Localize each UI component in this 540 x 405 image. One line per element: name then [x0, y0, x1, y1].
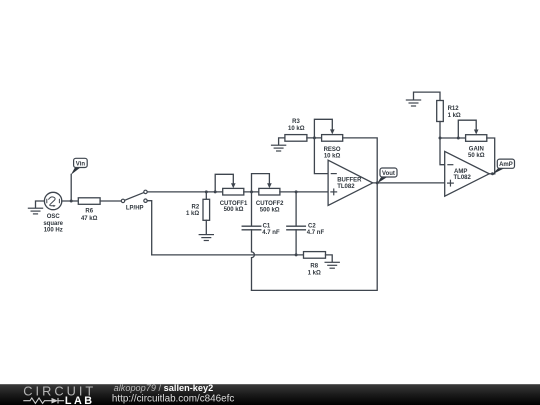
- wire: CUTOFF2 to op-amp non-inverting input: [280, 191, 328, 193]
- wire: R8 to ground: [326, 255, 333, 262]
- wire: feedback rail from output down to C1: [252, 183, 378, 291]
- capacitor C1: [242, 226, 261, 230]
- svg-text:RESO: RESO: [324, 147, 341, 153]
- wire: U1 inverting input stem: [314, 138, 328, 174]
- node AmP: [491, 172, 494, 175]
- svg-text:TL082: TL082: [337, 184, 355, 190]
- wire: R3 to RESO: [307, 137, 322, 139]
- wire: C1 bottom stem with hop over bottom rail: [252, 230, 255, 291]
- svg-text:OSC: OSC: [47, 214, 61, 220]
- footer bar: [0, 384, 540, 405]
- node Vin junction: [70, 200, 73, 203]
- wire: OSC negative terminal to ground: [36, 201, 45, 208]
- flag Vout: [377, 168, 397, 183]
- svg-text:500 kΩ: 500 kΩ: [224, 207, 244, 213]
- label C1 4.7 nF: [262, 224, 280, 236]
- wire: CUTOFF1 to CUTOFF2: [244, 191, 259, 193]
- wire: R2 top stem: [205, 192, 207, 199]
- wire: Vin flag stem: [70, 174, 72, 201]
- svg-text:GAIN: GAIN: [469, 147, 484, 153]
- wire: switch LP throw to CUTOFF1: [147, 191, 223, 193]
- node GAIN wiper junction: [457, 137, 460, 140]
- wire: bottom rail to R8: [152, 254, 304, 256]
- wire: ground to R12: [414, 92, 441, 100]
- svg-text:Vin: Vin: [76, 161, 86, 167]
- wire: RESO to output node (feedback): [343, 138, 378, 183]
- svg-text:100 Hz: 100 Hz: [44, 228, 63, 234]
- label R2 1 kOhm: [186, 205, 200, 217]
- node R12/GAIN junction: [439, 137, 442, 140]
- resistor R2: [203, 199, 210, 220]
- node R8 junction: [295, 253, 298, 256]
- ground (R12): [406, 100, 420, 106]
- svg-text:R2: R2: [192, 205, 200, 211]
- svg-text:square: square: [43, 221, 63, 227]
- voltage source OSC: [44, 192, 61, 209]
- node A (CUTOFF1 / CUTOFF2 / C1): [250, 190, 253, 193]
- svg-text:10 kΩ: 10 kΩ: [324, 153, 341, 159]
- wire: switch HP throw down to bottom rail: [147, 201, 152, 255]
- wire: OSC to R6: [62, 200, 79, 202]
- capacitor C2: [287, 226, 306, 230]
- wire: node to GAIN: [440, 137, 466, 139]
- wire: U2 output stub: [489, 173, 495, 175]
- op-amp U1 BUFFER TL082: [328, 160, 373, 205]
- svg-text:R3: R3: [292, 119, 300, 125]
- svg-text:CUTOFF2: CUTOFF2: [256, 201, 284, 207]
- svg-text:TL082: TL082: [454, 175, 472, 181]
- label RESO 10 kOhm: [324, 147, 341, 159]
- wire: GAIN to U2 output: [487, 138, 495, 174]
- svg-text:BUFFER: BUFFER: [337, 178, 362, 184]
- resistor R3: [285, 135, 307, 142]
- node CUTOFF1 wiper junction: [214, 190, 217, 193]
- wire: RESO wiper loop: [314, 119, 334, 138]
- svg-text:4.7 nF: 4.7 nF: [307, 230, 325, 236]
- svg-text:1 kΩ: 1 kΩ: [186, 211, 199, 217]
- svg-text:50 kΩ: 50 kΩ: [468, 153, 485, 159]
- wire: R3 to ground: [279, 138, 285, 145]
- label CUTOFF2 500 kOhm: [256, 201, 284, 213]
- wire: R12 to node: [439, 122, 441, 139]
- svg-text:alkopop79 / sallen-key2: alkopop79 / sallen-key2: [114, 383, 214, 393]
- svg-text:500 kΩ: 500 kΩ: [260, 208, 280, 214]
- svg-text:LP/HP: LP/HP: [126, 205, 144, 211]
- switch SW1 LP/HP: [121, 190, 147, 202]
- op-amp U2 AMP TL082: [445, 151, 490, 196]
- wire: CUTOFF1 wiper loop: [215, 174, 235, 192]
- footer logo CIRCUIT LAB: [23, 383, 96, 405]
- svg-text:LAB: LAB: [65, 395, 95, 405]
- wire: R6 to switch common: [100, 200, 121, 202]
- ground (OSC): [28, 208, 42, 214]
- ground (R3): [272, 145, 286, 151]
- label BUFFER TL082: [337, 178, 362, 191]
- potentiometer GAIN: [466, 135, 487, 142]
- label R12 1 kOhm: [448, 106, 461, 119]
- svg-text:1 kΩ: 1 kΩ: [308, 270, 321, 276]
- wire: C1 top stem: [251, 192, 253, 226]
- svg-text:47 kΩ: 47 kΩ: [81, 216, 98, 222]
- label R3 10 kOhm: [288, 119, 305, 132]
- ground (R2): [199, 235, 213, 241]
- flag Vin: [71, 158, 87, 175]
- svg-text:R8: R8: [310, 264, 318, 270]
- label C2 4.7 nF: [307, 224, 325, 236]
- label OSC square 100 Hz: [43, 214, 63, 233]
- svg-text:C2: C2: [308, 224, 316, 230]
- svg-text:C1: C1: [263, 224, 271, 230]
- resistor R8: [304, 252, 326, 259]
- svg-text:R12: R12: [448, 106, 460, 112]
- wire: R2 to ground: [205, 220, 207, 234]
- resistor R6: [78, 198, 100, 205]
- svg-text:AmP: AmP: [499, 162, 513, 168]
- svg-text:10 kΩ: 10 kΩ: [288, 126, 305, 132]
- ground (R8): [325, 262, 339, 268]
- wire: CUTOFF2 wiper loop: [252, 174, 272, 192]
- potentiometer CUTOFF1: [223, 188, 244, 195]
- svg-text:http://circuitlab.com/c846efc: http://circuitlab.com/c846efc: [112, 394, 234, 405]
- wire: C2 top stem: [295, 192, 297, 226]
- wire: C2 bottom stem: [295, 230, 297, 255]
- svg-text:1 kΩ: 1 kΩ: [448, 113, 461, 119]
- potentiometer CUTOFF2: [259, 188, 280, 195]
- flag AmP: [493, 159, 515, 174]
- resistor R12: [437, 101, 444, 122]
- wire: U1 output to U2 non-inverting input: [373, 182, 445, 184]
- potentiometer RESO: [322, 135, 343, 142]
- wire: GAIN wiper loop: [458, 120, 478, 138]
- label AMP TL082: [454, 169, 472, 181]
- svg-text:CUTOFF1: CUTOFF1: [220, 201, 248, 207]
- label R8 1 kOhm: [308, 264, 321, 277]
- label GAIN 50 kOhm: [468, 147, 485, 160]
- label R6 47 kOhm: [81, 209, 98, 222]
- node R3/RESO junction: [313, 136, 316, 139]
- svg-text:R6: R6: [85, 209, 93, 215]
- label CUTOFF1 500 kOhm: [220, 201, 248, 213]
- node Vout: [376, 181, 379, 184]
- svg-text:4.7 nF: 4.7 nF: [262, 230, 280, 236]
- node R2 junction: [205, 190, 208, 193]
- wire: U2 inverting input stem: [440, 138, 445, 165]
- node C2 junction: [295, 190, 298, 193]
- svg-text:Vout: Vout: [382, 171, 395, 177]
